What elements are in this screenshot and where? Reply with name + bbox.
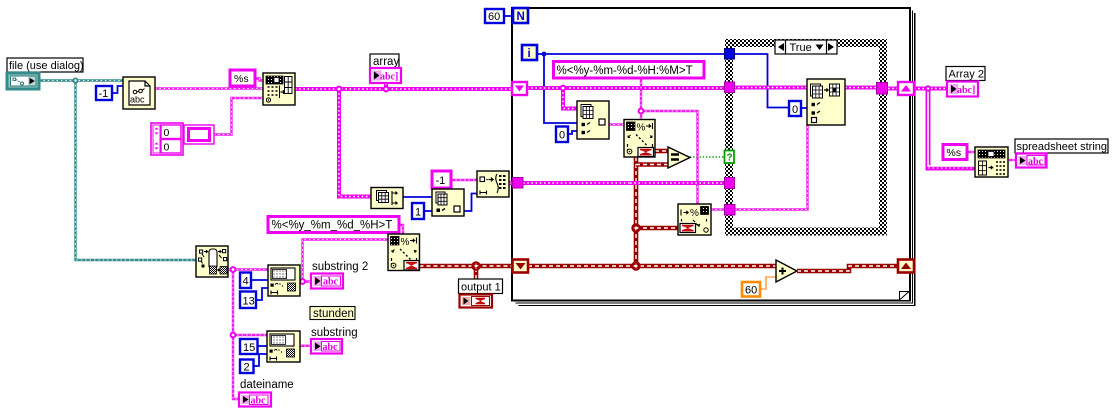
wire: i terminal to case blue tunnel bbox=[537, 53, 725, 55]
wire: array subset tunnel across loop to case tunnel bbox=[523, 181, 725, 185]
tunnel array into case (pink, unused) bbox=[725, 178, 735, 189]
wire: %s to array-to-spreadsheet bbox=[967, 151, 975, 153]
svg-text:0: 0 bbox=[164, 142, 170, 154]
wire: 4 to string subset 1 bbox=[251, 279, 268, 281]
case structure border (checkered) bbox=[725, 39, 887, 236]
node Add bbox=[776, 260, 797, 282]
wire: i branch down to index array row input bbox=[544, 54, 577, 123]
label stunden bbox=[310, 307, 355, 321]
label Array 2 bbox=[946, 67, 985, 81]
wire: branch down to array-to-spreadsheet node bbox=[925, 85, 975, 168]
label spreadsheet string bbox=[1015, 139, 1108, 153]
loop page-curl corner bbox=[900, 292, 910, 301]
svg-text:array: array bbox=[373, 56, 399, 68]
indicator dateiname bbox=[239, 393, 271, 407]
svg-text:2: 2 bbox=[244, 362, 250, 374]
node B: junction to array indicator bbox=[384, 83, 388, 89]
svg-text:-1: -1 bbox=[436, 175, 446, 187]
wire: maroon time stamp from scan (outside) into loop bbox=[420, 264, 514, 269]
case selector terminal ? bbox=[725, 151, 735, 164]
svg-text:spreadsheet string: spreadsheet string bbox=[1017, 141, 1108, 153]
node Array To Spreadsheet String bbox=[975, 147, 1008, 177]
constant 60 (orange) bbox=[742, 282, 760, 297]
wire: drop to index array (in loop) bbox=[563, 88, 577, 109]
wire: branch right and down to format date/time node bbox=[641, 111, 698, 204]
indicator substring 2 bbox=[311, 274, 343, 289]
wire: 0 to index array col input bbox=[568, 131, 577, 134]
indicator spreadsheet string bbox=[1016, 154, 1047, 168]
node Scan From String (in loop) bbox=[624, 120, 655, 158]
constant format string %<%y-%m-%d-%H:%M>T bbox=[554, 62, 705, 79]
node String Subset 1 bbox=[268, 265, 300, 296]
node: maroon junction ring bbox=[472, 262, 479, 269]
wire: add output to right shift register bbox=[797, 266, 898, 271]
wire: -1 to Read Text File count input bbox=[112, 86, 123, 93]
wire: index array out to array subset length bbox=[464, 194, 477, 212]
terminal i bbox=[522, 45, 537, 60]
tunnel 2D array into case (pink) bbox=[725, 82, 735, 93]
control file path (use dialog) bbox=[7, 73, 39, 89]
wire: branch to format date/time input bbox=[636, 226, 678, 231]
wire: string subset 2 output to substring indicator bbox=[300, 345, 311, 347]
node Index Array (in loop) bbox=[577, 101, 609, 139]
svg-text:%<%y-%m-%d-%H:%M>T: %<%y-%m-%d-%H:%M>T bbox=[557, 65, 693, 77]
wire: node to spreadsheet string indicator bbox=[1008, 159, 1016, 161]
wire: 15 to string subset 2 bbox=[258, 345, 268, 347]
svg-text:abc]: abc] bbox=[380, 72, 398, 83]
wire: empty array constant up into node bbox=[214, 98, 263, 135]
svg-text:%: % bbox=[690, 208, 699, 219]
wire: maroon from shift register to add node bbox=[528, 264, 776, 269]
svg-text:file (use dialog): file (use dialog) bbox=[9, 60, 84, 72]
svg-text:abc: abc bbox=[251, 396, 267, 407]
tunnel array subset into loop bbox=[513, 178, 524, 189]
wire: new element string up into node bbox=[735, 125, 808, 210]
svg-text:output 1: output 1 bbox=[461, 282, 501, 294]
wire: 1 to index array bbox=[424, 210, 432, 212]
svg-text:0: 0 bbox=[559, 130, 565, 142]
wire: format string constant to scan from string (outside) bbox=[399, 225, 403, 234]
wire: %s constant to node bbox=[255, 79, 263, 81]
svg-text:0: 0 bbox=[164, 127, 170, 139]
wire: blue array size to index array bbox=[403, 196, 432, 198]
svg-text:N: N bbox=[517, 11, 525, 23]
wire: branch down to output 1 bbox=[474, 266, 479, 295]
label output 1 bbox=[459, 279, 503, 294]
wire: maroon vertical trunk in loop bbox=[634, 157, 639, 266]
case selector label True bbox=[775, 40, 837, 54]
svg-text:15: 15 bbox=[243, 342, 255, 354]
constant 1 bbox=[412, 203, 424, 219]
svg-text:-1: -1 bbox=[99, 88, 109, 100]
svg-text:abc: abc bbox=[323, 342, 339, 353]
svg-text:True: True bbox=[790, 42, 812, 54]
constant 0 (in loop) bbox=[556, 127, 568, 143]
svg-text:%s: %s bbox=[947, 147, 962, 159]
constant array of 0 0 bbox=[151, 123, 183, 155]
svg-text:13: 13 bbox=[243, 296, 255, 308]
wire: array subset out to loop tunnel bbox=[509, 181, 513, 185]
node A: junction to transpose branch bbox=[339, 89, 371, 197]
node Spreadsheet String To Array bbox=[263, 73, 295, 105]
svg-text:stunden: stunden bbox=[313, 308, 354, 320]
constant %s (top) bbox=[230, 70, 255, 86]
constant 0 (in case) bbox=[789, 101, 801, 116]
node Index Array (outer) bbox=[432, 189, 464, 216]
indicator substring bbox=[311, 339, 342, 354]
wire: -1 string to array subset bbox=[451, 179, 477, 181]
wire: format string const drop to scan node (in loop) bbox=[640, 78, 642, 120]
constant 4 bbox=[240, 273, 251, 289]
indicator Array 2 bbox=[947, 82, 978, 97]
for loop N=60 border bbox=[512, 8, 915, 306]
svg-text:%s: %s bbox=[234, 73, 249, 85]
wire: teal path wire from file control bbox=[39, 79, 123, 81]
node Format Date/Time String bbox=[678, 204, 711, 235]
shift register left (maroon, down arrow) bbox=[513, 260, 529, 273]
constant %s (right) bbox=[943, 145, 967, 160]
node Strip Path bbox=[196, 246, 228, 277]
tunnel i into case (blue) bbox=[725, 49, 735, 60]
node Array Size bbox=[371, 188, 403, 209]
shift register right (maroon, up arrow) bbox=[898, 260, 914, 273]
svg-text:substring 2: substring 2 bbox=[312, 261, 368, 273]
svg-text:?: ? bbox=[727, 153, 733, 164]
svg-text:60: 60 bbox=[488, 11, 500, 23]
wire: blue inside case from tunnel to replace array subset bbox=[734, 54, 789, 108]
wire: scan out to equal top input bbox=[655, 149, 668, 154]
wire: index array (in loop) to scan node bbox=[609, 123, 624, 125]
label array bbox=[370, 54, 399, 68]
wire: 13 to string subset 1 bbox=[256, 288, 268, 300]
svg-text:abc: abc bbox=[323, 277, 339, 288]
svg-text:0: 0 bbox=[792, 104, 798, 116]
node Array Subset bbox=[477, 171, 509, 197]
svg-text:Array 2: Array 2 bbox=[949, 69, 984, 81]
tunnel new string into case (pink) bbox=[725, 205, 736, 216]
wire: branch to equal bottom input bbox=[636, 162, 668, 167]
node Read Text File bbox=[123, 77, 155, 109]
svg-text:4: 4 bbox=[243, 276, 249, 288]
constant -1 (blue) bbox=[96, 86, 112, 100]
wire: equal boolean to case selector bbox=[690, 156, 725, 158]
tunnel case output (pink) bbox=[877, 83, 888, 95]
node String Subset 2 bbox=[267, 331, 300, 362]
svg-text:substring: substring bbox=[311, 327, 358, 339]
svg-text:%<%y_%m_%d_%H>T: %<%y_%m_%d_%H>T bbox=[272, 220, 393, 232]
wire crossing patch bbox=[630, 181, 643, 185]
wire: case out to right shift register and Array 2 bbox=[888, 87, 898, 91]
svg-text:1: 1 bbox=[415, 207, 421, 219]
wire: strip path output string branches bbox=[228, 268, 268, 270]
wire: pink inside case through replace array subset bbox=[734, 86, 807, 90]
wire: main pink string from Read Text File to Spreadsheet String To Array bbox=[155, 87, 263, 89]
svg-text:60: 60 bbox=[745, 285, 757, 297]
node Replace Array Subset bbox=[807, 79, 845, 125]
svg-text:abc: abc bbox=[1028, 157, 1044, 168]
constant empty array bbox=[184, 125, 214, 144]
constant 2 bbox=[240, 360, 254, 374]
terminal N bbox=[513, 8, 528, 23]
indicator output 1 (time stamp) bbox=[460, 295, 493, 308]
wire: format date/time output into case tunnel bbox=[711, 208, 725, 210]
shift register left (pink, down arrow) bbox=[512, 82, 527, 95]
indicator array bbox=[370, 68, 401, 83]
shift register right (pink, up arrow) bbox=[898, 82, 914, 95]
node: teal junction bbox=[73, 78, 79, 84]
wire: 60 orange to add bbox=[760, 277, 776, 289]
node Equal? bbox=[668, 147, 690, 168]
wire: 60 to N terminal bbox=[504, 15, 513, 17]
wire: 2D array from left shift register across loop into case bbox=[527, 86, 725, 90]
constant format string %<%y_%m_%d_%H>T bbox=[268, 217, 399, 233]
label file (use dialog) bbox=[7, 58, 84, 72]
svg-text:%: % bbox=[637, 123, 646, 134]
constant 60 (loop count) bbox=[485, 9, 504, 23]
svg-text:abc]: abc] bbox=[957, 85, 975, 96]
svg-text:i: i bbox=[528, 48, 531, 60]
node Scan From String (outside) bbox=[388, 234, 420, 271]
wire: main 2D string array from node to loop shift register bbox=[295, 87, 512, 91]
wire: 2 to string subset 2 bbox=[254, 354, 268, 366]
constant -1 (pink) bbox=[432, 171, 451, 188]
constant 13 bbox=[240, 292, 256, 309]
wire: string subset 1 output to substring 2 and scan bbox=[300, 280, 311, 282]
svg-text:dateiname: dateiname bbox=[240, 379, 294, 391]
constant 15 bbox=[240, 339, 258, 354]
svg-text:%: % bbox=[401, 237, 410, 248]
svg-text:abc: abc bbox=[130, 95, 145, 105]
